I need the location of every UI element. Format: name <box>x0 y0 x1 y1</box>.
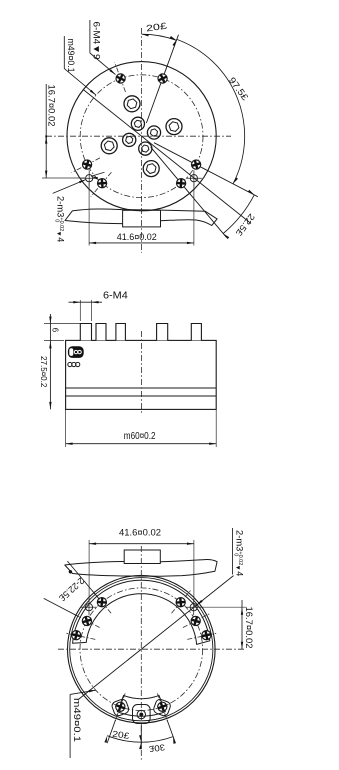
svg-text:16.7¤0.02: 16.7¤0.02 <box>244 607 255 649</box>
svg-text:6-M4: 6-M4 <box>103 291 128 302</box>
svg-text:41.6¤0.02: 41.6¤0.02 <box>117 231 157 242</box>
svg-text:m49¤0.1: m49¤0.1 <box>72 698 83 742</box>
svg-text:16.7¤0.02: 16.7¤0.02 <box>47 85 58 127</box>
svg-text:m49¤0.1: m49¤0.1 <box>66 39 77 73</box>
svg-text:m60¤0.2: m60¤0.2 <box>124 431 156 442</box>
svg-text:27.5¤0.2: 27.5¤0.2 <box>39 356 49 388</box>
svg-text:6: 6 <box>51 328 60 333</box>
svg-text:41.6¤0.02: 41.6¤0.02 <box>119 527 161 538</box>
svg-text:6-M4▼9: 6-M4▼9 <box>91 22 102 60</box>
